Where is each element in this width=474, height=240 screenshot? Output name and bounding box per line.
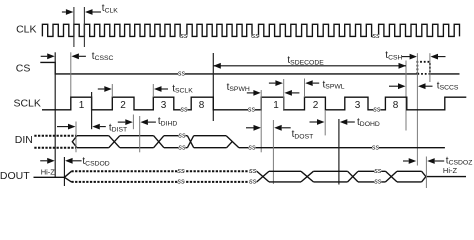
svg-text:DIN: DIN (15, 134, 33, 146)
svg-text:2: 2 (120, 100, 126, 111)
svg-text:ss: ss (180, 31, 188, 40)
svg-text:3: 3 (355, 100, 361, 111)
svg-text:ss: ss (248, 105, 256, 114)
svg-text:ss: ss (249, 177, 257, 186)
svg-text:1: 1 (79, 100, 85, 111)
svg-text:3: 3 (161, 100, 167, 111)
svg-text:SCLK: SCLK (13, 97, 40, 109)
svg-text:ss: ss (180, 105, 188, 114)
svg-text:ss: ss (178, 143, 186, 152)
svg-text:ss: ss (372, 31, 380, 40)
svg-text:ss: ss (372, 143, 380, 152)
svg-text:ss: ss (248, 143, 256, 152)
svg-text:ss: ss (249, 166, 257, 175)
svg-text:8: 8 (199, 100, 205, 111)
svg-text:ss: ss (178, 69, 186, 78)
svg-text:ss: ss (177, 177, 185, 186)
svg-text:Hi-Z: Hi-Z (41, 168, 56, 177)
svg-text:ss: ss (373, 105, 381, 114)
svg-text:CLK: CLK (16, 24, 36, 36)
svg-text:ss: ss (178, 131, 186, 140)
svg-text:8: 8 (393, 100, 399, 111)
svg-text:2: 2 (313, 100, 319, 111)
svg-text:CS: CS (16, 62, 31, 74)
svg-text:DOUT: DOUT (0, 170, 30, 182)
svg-text:ss: ss (374, 177, 382, 186)
svg-text:Hi-Z: Hi-Z (443, 166, 458, 175)
svg-text:ss: ss (374, 166, 382, 175)
svg-text:ss: ss (252, 31, 260, 40)
svg-text:1: 1 (273, 100, 279, 111)
svg-text:ss: ss (177, 166, 185, 175)
